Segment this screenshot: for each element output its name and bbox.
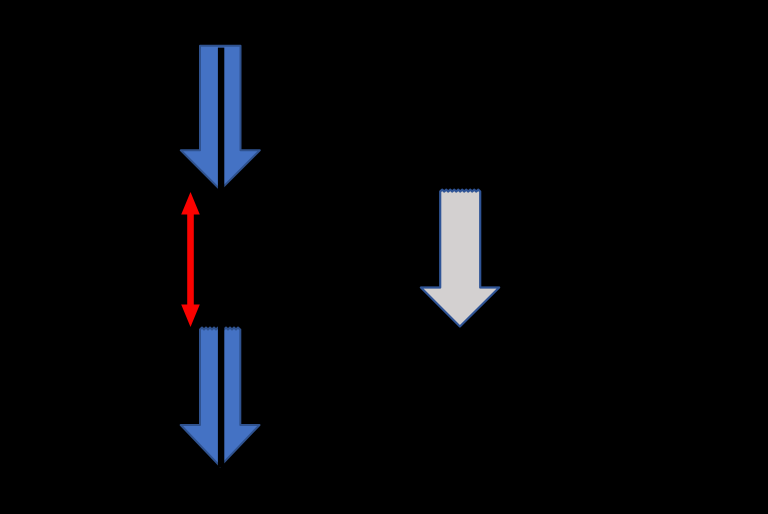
grey down arrow with blue outline (ragged top edge) [421,190,499,327]
blue down arrow (top, split by black stripe) [181,46,260,193]
blue down arrow (bottom, split by black stripe, ragged top edge) [181,324,260,467]
red double-headed vertical arrow [181,192,200,327]
